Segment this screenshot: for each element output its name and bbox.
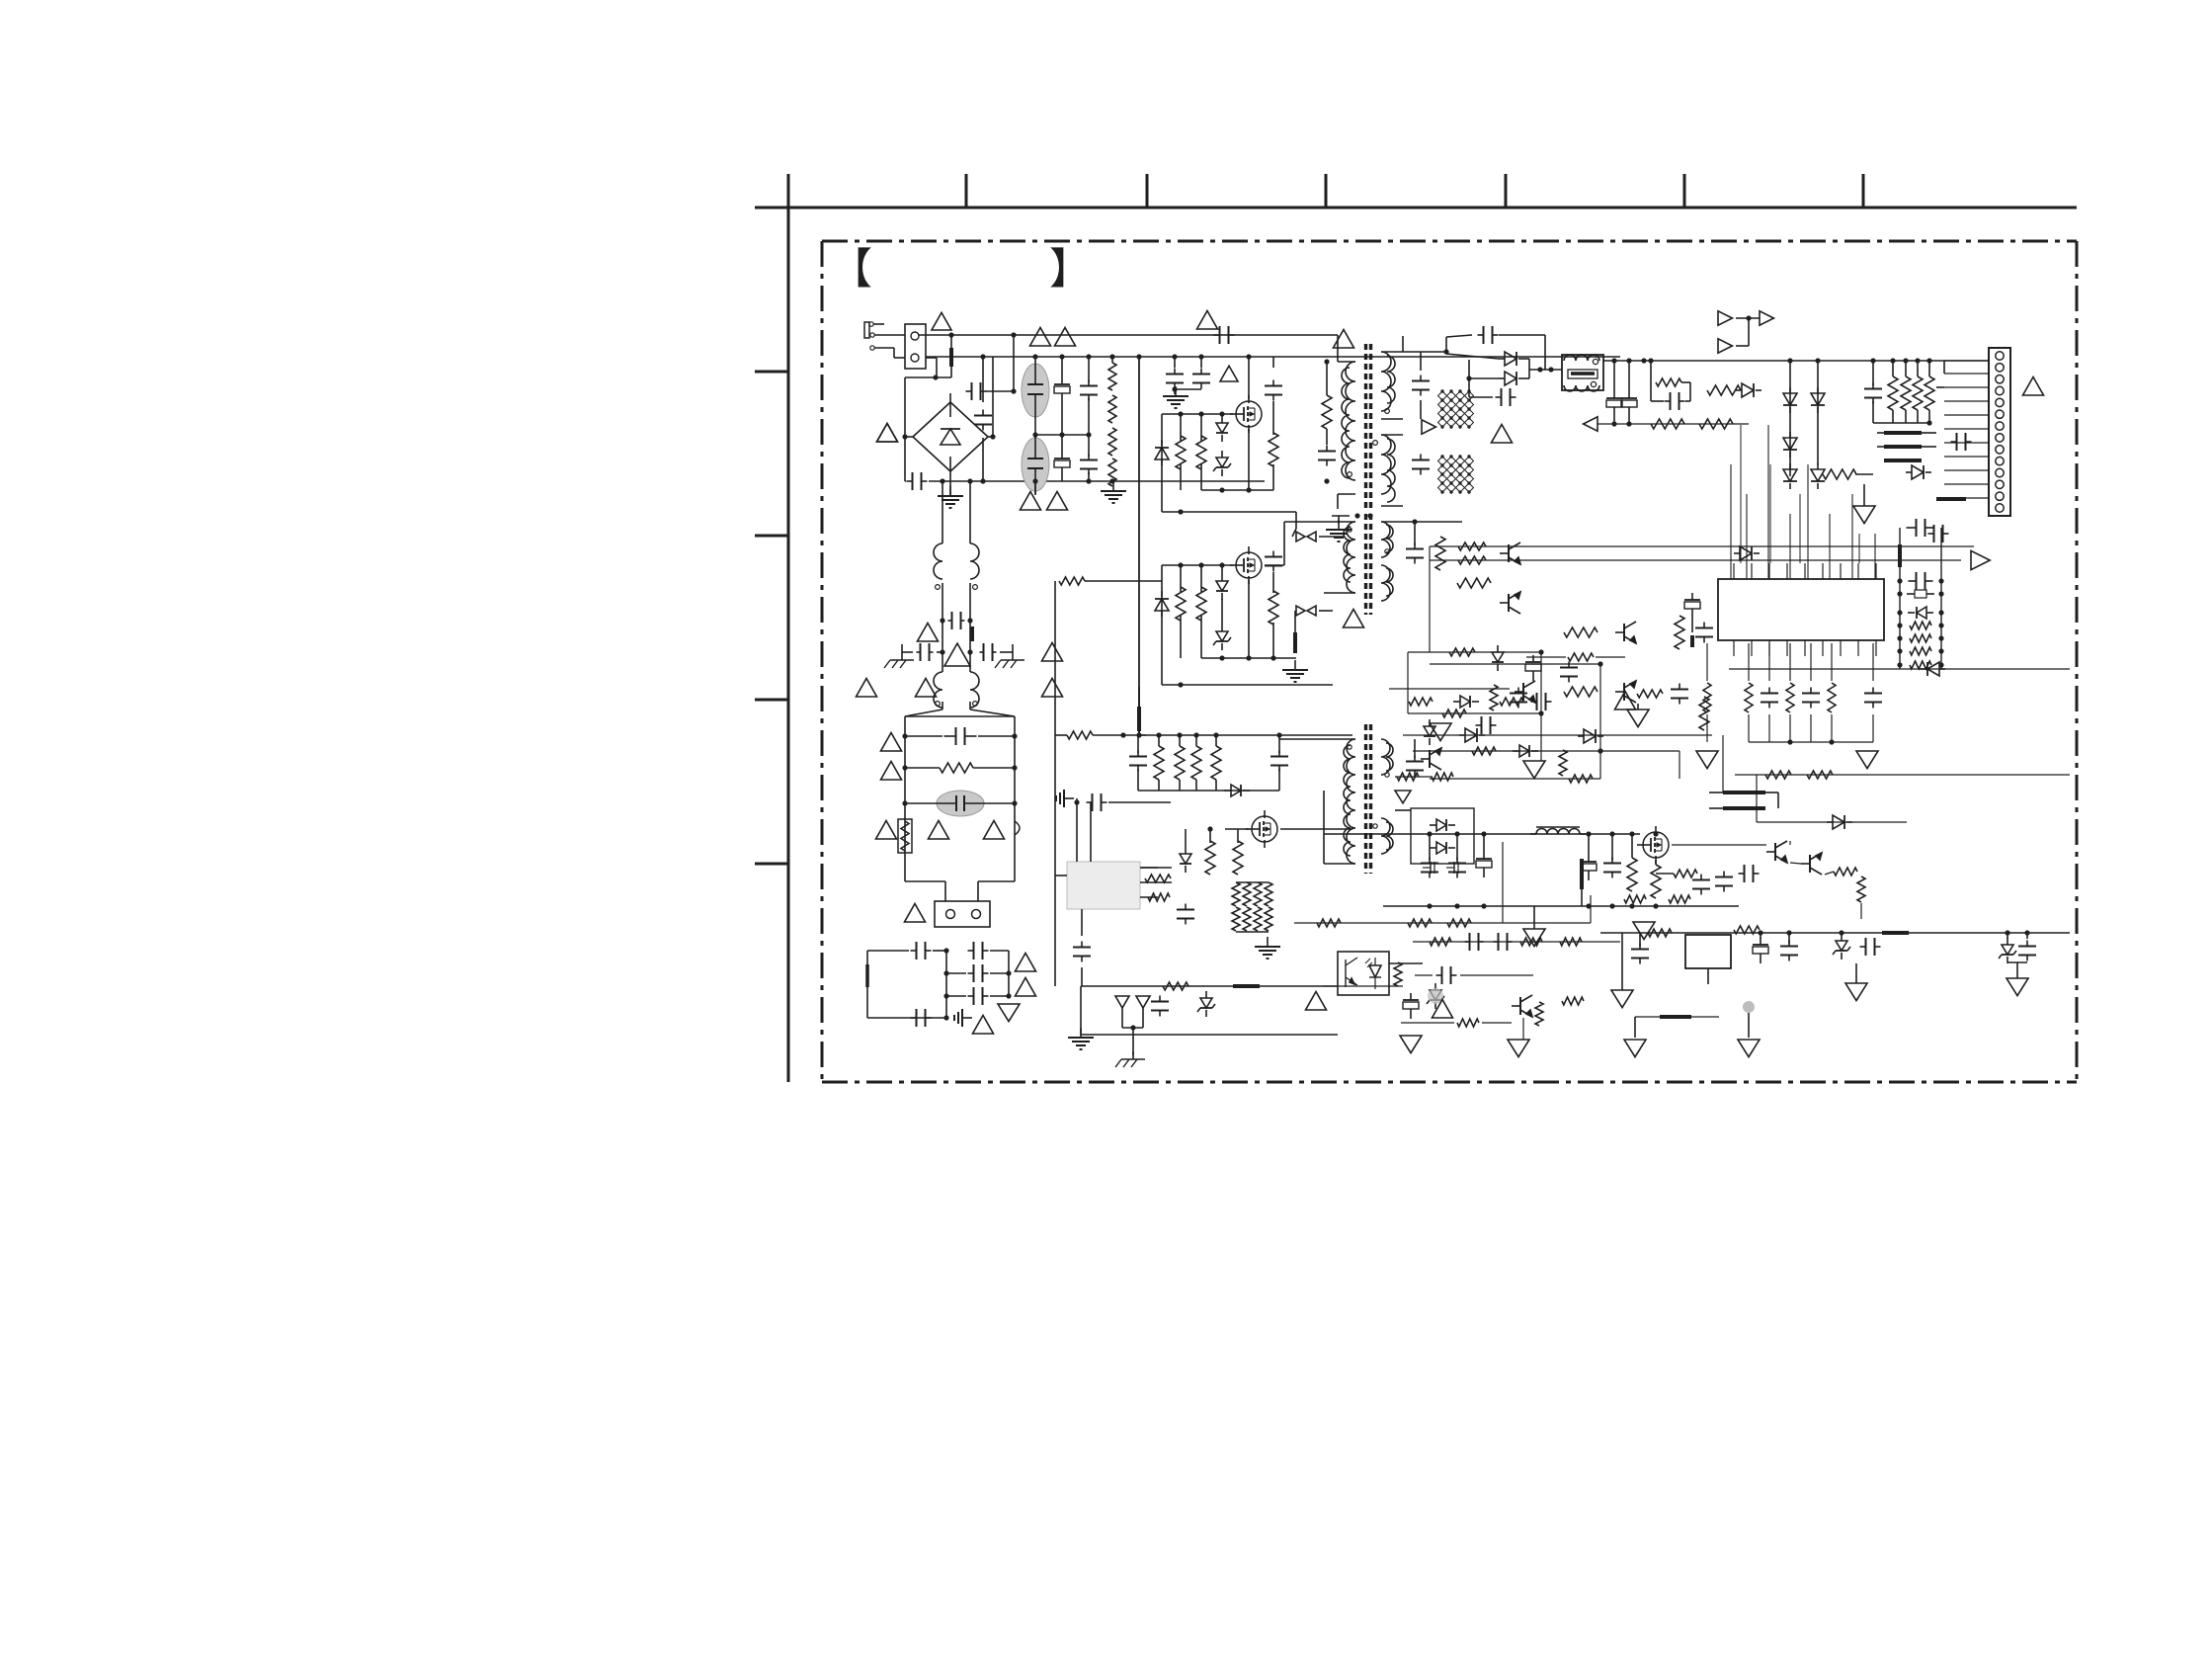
svg-text:】: 】 xyxy=(1049,246,1092,293)
svg-text:【: 【 xyxy=(830,246,872,293)
